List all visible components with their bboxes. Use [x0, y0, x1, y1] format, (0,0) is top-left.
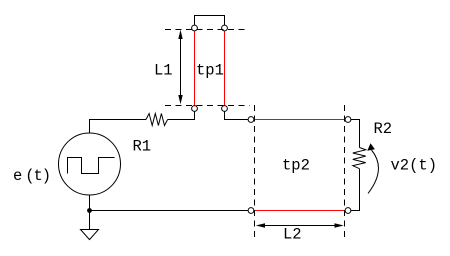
- wire stub right terminal down to tp2 input: [225, 111, 249, 119]
- wire tp2 top-right to R2: [351, 120, 360, 148]
- v2(t) arrow arc: [368, 150, 378, 194]
- svg-text:e: e: [13, 167, 22, 185]
- svg-text:tp2: tp2: [282, 157, 310, 175]
- tp1 right conductor (red): [224, 31, 226, 107]
- reference plane dashed line left of tp2: [254, 105, 256, 241]
- reference plane dashed line top of tp1: [165, 29, 246, 31]
- svg-text:L1: L1: [154, 62, 173, 80]
- junction node: [87, 208, 92, 213]
- tp1 terminal top-left: [192, 25, 198, 31]
- short-circuit bridge at top of tp1: [195, 16, 225, 26]
- tp1 terminal bottom-right: [222, 106, 228, 112]
- tp2 top conductor (red): [254, 119, 346, 121]
- wire R2 bottom to tp2 bottom-right: [351, 169, 360, 211]
- tp2 terminal top-right: [345, 117, 351, 123]
- svg-text:R2: R2: [374, 120, 393, 138]
- square-wave symbol inside source: [68, 158, 115, 174]
- source e(t) U1: [59, 133, 121, 195]
- ground: [81, 230, 99, 240]
- reference plane dashed line right of tp2: [344, 105, 346, 241]
- wire source bottom to ground: [89, 195, 91, 230]
- dimension L1 arrow: [180, 38, 182, 96]
- tp2 terminal bottom-right: [345, 208, 351, 214]
- tp1 terminal top-right: [222, 25, 228, 31]
- svg-text:(t): (t): [25, 167, 50, 185]
- wire R1 to stub left terminal: [168, 111, 195, 119]
- svg-text:v2(t): v2(t): [391, 157, 438, 175]
- dimension L2 arrow: [264, 225, 336, 227]
- bottom return wire: [90, 210, 249, 212]
- svg-text:L2: L2: [283, 226, 302, 244]
- resistor R2: [353, 148, 366, 169]
- tp2 terminal bottom-left: [248, 208, 254, 214]
- tp2 bottom conductor (red): [254, 210, 346, 212]
- svg-text:tp1: tp1: [196, 62, 224, 80]
- tp2 terminal top-left: [248, 117, 254, 123]
- wire source top to R1: [90, 120, 147, 134]
- tp1 left conductor (red): [194, 31, 196, 107]
- reference plane dashed line bottom of tp1: [165, 105, 250, 107]
- tp1 terminal bottom-left: [192, 106, 198, 112]
- resistor R1: [146, 114, 168, 126]
- svg-text:R1: R1: [133, 138, 152, 156]
